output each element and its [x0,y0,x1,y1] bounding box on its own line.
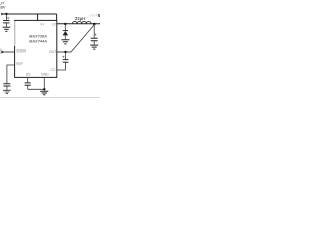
node output junction [93,23,96,26]
capacitor REF [3,84,10,86]
svg-text:5V: 5V [98,13,100,18]
wire OUT to CC cap [65,52,67,59]
SHDN arrow [2,51,5,54]
bottom border line [0,96,100,98]
wire LX output line [57,23,100,25]
wire diode drop [64,24,66,30]
wire feedback diagonal [71,25,94,52]
box left edge lighter overlay [14,21,16,46]
svg-text:16V: 16V [0,6,6,10]
wire GND pin [43,77,45,89]
node LX junction [64,23,66,25]
capacitor output [91,38,98,40]
wire diode to ground [64,35,66,39]
wire REF pin [7,65,15,83]
diode D1 cathode bar [63,30,68,32]
svg-text:LX: LX [52,23,57,27]
diode D1 [63,31,69,36]
svg-text:GND: GND [41,73,49,77]
wire REF cap to ground [6,86,8,90]
node OUT junction [64,51,66,53]
input arrow [1,13,4,16]
wire V+ pin stub [37,14,39,20]
svg-text:REF: REF [16,62,23,66]
svg-text:V+: V+ [40,23,44,27]
wire C1 to ground [5,23,7,27]
svg-text:CC: CC [51,68,56,72]
svg-text:SHDN: SHDN [16,50,26,54]
ground output [90,45,98,49]
wire bottom rail [28,88,46,90]
ground REF [3,90,11,93]
svg-text:33µH: 33µH [75,16,86,21]
ground input [3,27,11,31]
wire rail corner drop [56,14,58,20]
capacitor CC [63,60,69,63]
node GND junction [43,88,45,90]
svg-text:SS: SS [26,73,31,77]
wire output cap drop [93,24,95,38]
capacitor C1 [3,21,9,23]
capacitor SS [25,83,31,85]
wire SS cap to rail [27,86,29,90]
svg-text:OUT: OUT [49,50,56,54]
wire CC cap to pin [57,63,66,71]
capacitor C1 plus [7,17,9,19]
wire SS pin [27,77,29,82]
capacitor CC plus [62,56,64,58]
svg-text:MAX744A: MAX744A [29,39,47,44]
wire input rail [3,13,57,15]
wire OUT pin [57,51,71,53]
inductor L1 [72,21,91,23]
ground GND [40,91,48,95]
wire output cap to ground [93,41,95,45]
wire SHDN [4,51,14,53]
wire input cap drop [5,14,7,20]
node input junction [5,13,7,15]
capacitor output plus [94,34,96,36]
op-amp U1 MAX738A box [15,20,57,77]
ground diode [61,40,69,44]
